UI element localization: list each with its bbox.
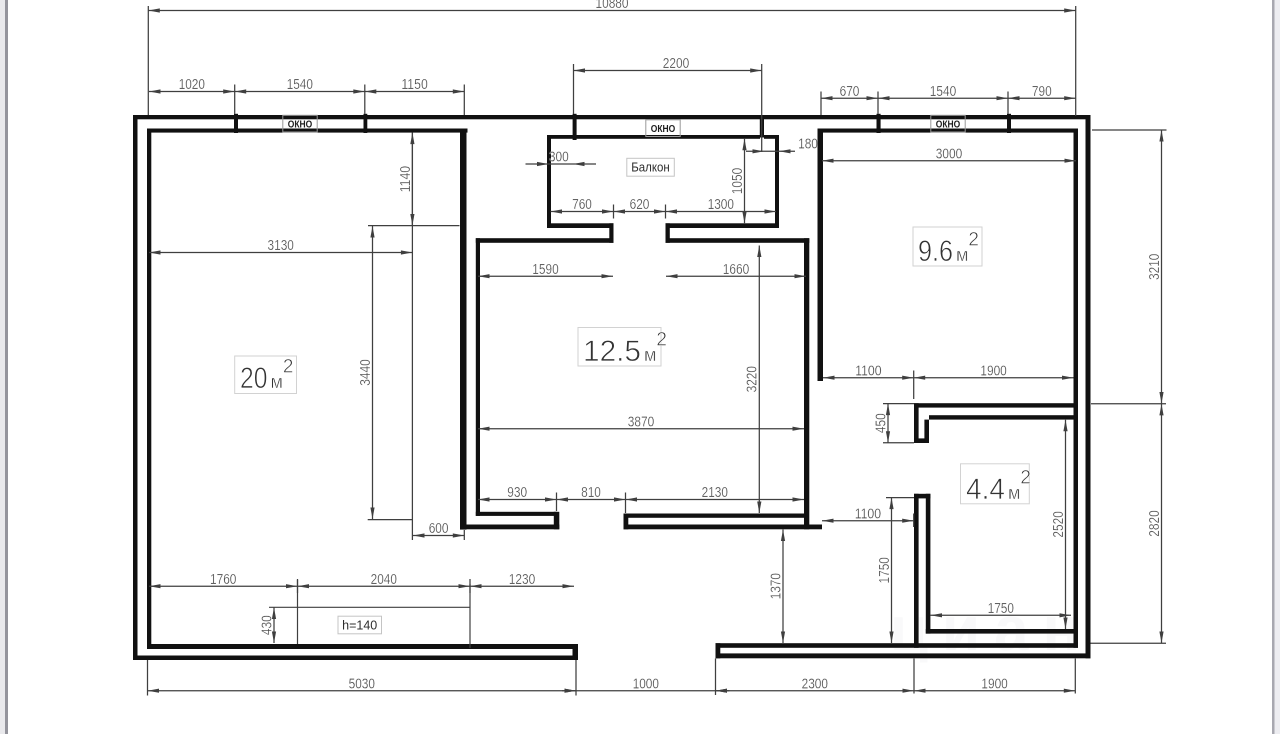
dim ext 1750v top xyxy=(886,497,914,499)
dim ext y130 right xyxy=(1092,129,1167,131)
dim chain 930-810-2130 xyxy=(478,499,804,501)
wall room4.4 top inner xyxy=(929,415,1074,419)
wall bottom-right top line xyxy=(716,643,1079,648)
wall inner top segment B (room 9.6) xyxy=(818,129,1079,133)
dim chain 1100-1900 upper xyxy=(823,377,1074,379)
svg-text:2300: 2300 xyxy=(802,675,828,692)
dim ext bottom x1073.5 xyxy=(1074,659,1076,694)
svg-text:620: 620 xyxy=(630,196,650,213)
niche left side xyxy=(297,580,299,644)
page left border line xyxy=(5,0,8,734)
wall room4.4 top-left jamb xyxy=(914,403,919,443)
niche right side xyxy=(469,584,471,648)
svg-text:1900: 1900 xyxy=(981,675,1007,692)
dim ext bottom x914 xyxy=(913,659,915,694)
svg-text:3220: 3220 xyxy=(744,366,761,392)
balcony wall top W xyxy=(547,135,760,139)
dim 1900 bottom xyxy=(914,690,1075,692)
dim chain 760-620-1300 xyxy=(551,211,777,213)
balcony wall top E xyxy=(764,135,779,139)
dim chain 1020-1540-1150 xyxy=(149,91,464,93)
wall room12.5 bottom outer E xyxy=(624,525,823,530)
wall inner top segment A (room 20) xyxy=(147,129,468,133)
wall inner right xyxy=(1074,129,1079,648)
dim ext 670 ticks xyxy=(820,92,822,116)
svg-text:2040: 2040 xyxy=(371,571,397,588)
window jamb left-window E xyxy=(364,114,368,133)
dim 430 xyxy=(273,608,275,644)
wall outer bottom-left xyxy=(133,656,578,661)
balcony wall right xyxy=(775,135,779,228)
dim 3870 xyxy=(478,428,804,430)
page right border line xyxy=(1272,0,1275,734)
dim 1000 xyxy=(562,690,730,692)
wall room4.4 top outer xyxy=(914,403,1076,407)
wall room4.4 bottom inner xyxy=(926,629,1074,634)
label room 9.6 m2 xyxy=(913,227,982,266)
dim 2200 xyxy=(574,70,762,72)
svg-text:3130: 3130 xyxy=(268,237,294,254)
dim 1370 xyxy=(782,530,784,644)
svg-text:ОКНО: ОКНО xyxy=(288,119,313,131)
wall bottom-right bottom line xyxy=(716,653,1091,658)
dim ext tick 1100/1900 xyxy=(913,371,915,400)
dim 2820 xyxy=(1161,404,1163,643)
svg-text:670: 670 xyxy=(840,83,860,100)
wall outer left xyxy=(133,115,138,660)
svg-text:760: 760 xyxy=(572,196,592,213)
balcony door jamb E xyxy=(666,223,670,243)
label window ОКНО left xyxy=(283,115,317,132)
svg-text:430: 430 xyxy=(258,615,275,635)
wall room4.4 door lower jamb xyxy=(914,494,930,499)
svg-text:1540: 1540 xyxy=(930,83,956,100)
wall room12.5 bottom door jamb E xyxy=(624,514,629,530)
svg-text:1140: 1140 xyxy=(397,166,414,192)
svg-text:Балкон: Балкон xyxy=(631,161,670,175)
wall room12.5 top E xyxy=(666,238,810,243)
window jamb left-window W xyxy=(234,114,238,133)
svg-text:1020: 1020 xyxy=(179,76,205,93)
wall room9.6 left xyxy=(818,129,824,382)
dim 600 xyxy=(413,535,464,537)
dim ext 2200 left xyxy=(573,64,575,114)
wall inner bottom (room 20) xyxy=(147,644,573,649)
label room 20 m2 xyxy=(235,356,297,394)
wall bottom-right left cap xyxy=(716,643,721,658)
dim ext bottom x715.5 xyxy=(715,659,717,696)
balcony wall bottom E xyxy=(666,223,780,228)
dim chain 670-1540-790 xyxy=(821,97,1076,99)
svg-text:3000: 3000 xyxy=(936,145,962,162)
dim ext 450 bottom xyxy=(883,442,914,444)
svg-text:600: 600 xyxy=(429,520,449,537)
svg-text:1050: 1050 xyxy=(729,168,746,194)
dim ext 1020 ticks xyxy=(234,85,236,115)
dim ext y643 right xyxy=(1091,642,1167,644)
svg-text:1100: 1100 xyxy=(855,362,881,379)
dim ext 600 right xyxy=(463,530,465,540)
dim ext 10880 right xyxy=(1075,6,1077,116)
dim ext y403.5 right xyxy=(1091,403,1166,405)
dim 2300 xyxy=(716,690,915,692)
dim 3220 xyxy=(758,246,760,514)
label window ОКНО middle xyxy=(646,120,680,137)
balcony door jamb W xyxy=(609,223,613,243)
dim 1750 vertical xyxy=(891,498,893,643)
wall outer top xyxy=(133,115,1091,119)
svg-text:1540: 1540 xyxy=(287,76,313,93)
label room 4.4 m2 xyxy=(961,464,1030,504)
page left grey margin xyxy=(0,0,5,734)
dim 1660 xyxy=(666,275,806,277)
svg-text:1750: 1750 xyxy=(988,600,1014,617)
dim 2520 xyxy=(1065,420,1067,629)
dim ext 2200 right xyxy=(761,64,763,152)
wall inner left (room 20) xyxy=(147,129,151,650)
dim 180 xyxy=(746,150,795,152)
window jamb right-window E xyxy=(1007,114,1011,133)
svg-text:930: 930 xyxy=(507,484,527,501)
page right grey margin xyxy=(1275,0,1280,734)
wall bottom-left end cap xyxy=(573,644,579,660)
niche top line xyxy=(269,606,470,608)
balcony wall bottom W xyxy=(547,223,614,228)
svg-text:1370: 1370 xyxy=(767,573,784,599)
dim 3130 xyxy=(149,252,412,254)
wall room20 right xyxy=(460,129,467,530)
window jamb balcony-window E xyxy=(760,115,764,138)
dim ext ticks 1760/2040/1230 xyxy=(297,579,299,593)
svg-text:1230: 1230 xyxy=(509,571,535,588)
dim ext bottom x147.5 xyxy=(147,660,149,696)
svg-text:5030: 5030 xyxy=(349,675,375,692)
dim 10880 xyxy=(148,10,1075,12)
dim 1100 lower xyxy=(822,520,914,522)
dim 1140 xyxy=(411,133,413,226)
wall room12.5 bottom door jamb W xyxy=(554,512,560,530)
svg-text:1300: 1300 xyxy=(708,196,734,213)
svg-text:10880: 10880 xyxy=(596,0,629,12)
dim ext ticks 930/810 xyxy=(556,493,558,512)
dim 300 xyxy=(526,163,597,165)
svg-text:ОКНО: ОКНО xyxy=(936,119,961,131)
dim 3000 xyxy=(822,160,1076,162)
svg-text:2820: 2820 xyxy=(1146,510,1163,536)
dim ext bottom x576 xyxy=(575,660,577,696)
svg-text:1760: 1760 xyxy=(210,571,236,588)
svg-text:450: 450 xyxy=(872,413,889,433)
wall room12.5 bottom inner E xyxy=(624,514,807,518)
window jamb balcony-window W xyxy=(573,114,577,140)
dim 1590 xyxy=(478,275,613,277)
svg-text:3440: 3440 xyxy=(357,359,374,385)
svg-text:1590: 1590 xyxy=(532,261,558,278)
svg-text:3870: 3870 xyxy=(628,413,654,430)
dim chain 1760-2040-1230 xyxy=(149,585,574,587)
svg-text:1150: 1150 xyxy=(401,76,427,93)
dim 450 xyxy=(887,404,889,443)
dim 1050 xyxy=(744,139,746,223)
svg-text:3210: 3210 xyxy=(1146,254,1163,280)
dim 3210 xyxy=(1161,130,1163,404)
dim ext y519.5 xyxy=(368,519,413,521)
svg-text:2200: 2200 xyxy=(663,55,689,72)
wall room12.5 left xyxy=(476,238,480,516)
wall room12.5 right xyxy=(804,238,809,529)
svg-text:2130: 2130 xyxy=(702,484,728,501)
dim ext 450 top xyxy=(883,403,914,405)
dim ext y225.5 xyxy=(368,225,460,227)
svg-text:790: 790 xyxy=(1032,83,1052,100)
dim 3440 xyxy=(372,226,374,519)
dim 1750 horizontal xyxy=(931,614,1072,616)
wall room12.5 bottom inner W xyxy=(476,512,557,516)
svg-text:1750: 1750 xyxy=(876,557,893,583)
svg-text:1100: 1100 xyxy=(855,505,881,522)
label room 12.5 m2 xyxy=(578,328,661,367)
wall outer right xyxy=(1086,115,1091,658)
wall room12.5 bottom outer W xyxy=(460,525,559,530)
svg-text:300: 300 xyxy=(549,149,569,166)
svg-text:2520: 2520 xyxy=(1050,511,1067,537)
dim ext line x412 (1140/3130/600) xyxy=(411,133,413,540)
svg-text:180: 180 xyxy=(798,136,818,153)
wall room12.5 top W xyxy=(476,238,614,243)
svg-text:ОКНО: ОКНО xyxy=(651,123,676,135)
label h=140 xyxy=(338,616,382,634)
svg-text:h=140: h=140 xyxy=(342,619,377,633)
label window ОКНО right xyxy=(931,115,965,132)
label Балкон xyxy=(627,158,675,176)
svg-text:1660: 1660 xyxy=(723,261,749,278)
svg-text:810: 810 xyxy=(581,484,601,501)
dim 5030 xyxy=(148,690,577,692)
dim ext 10880 left xyxy=(147,6,149,115)
window jamb right-window W xyxy=(877,114,881,133)
dim ext tick x913.7 lower xyxy=(913,514,915,528)
svg-text:1000: 1000 xyxy=(633,675,659,692)
svg-text:1900: 1900 xyxy=(980,362,1006,379)
dim ext ticks 760/620 xyxy=(613,205,615,219)
balcony wall left xyxy=(547,135,551,228)
